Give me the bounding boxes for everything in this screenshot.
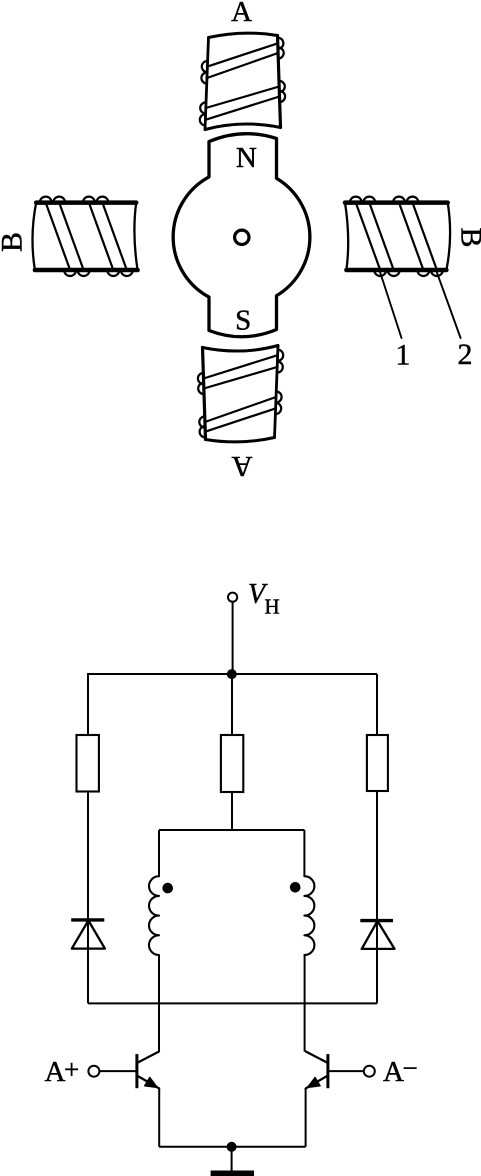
phase B-bar right coil — [345, 197, 450, 276]
top rail wire — [87, 673, 377, 675]
diode D1 cathode bar — [71, 918, 104, 921]
leader line to wire 1 — [380, 273, 401, 339]
coil A turn 1 left loop — [276, 403, 282, 414]
junction dot top rail — [227, 669, 237, 679]
coil A turn 1 wire — [205, 408, 275, 431]
svg-text:A: A — [231, 450, 252, 482]
coil A turn 1 left loop — [202, 61, 208, 72]
diode D1 triangle — [72, 921, 105, 949]
coil B turn 3 wire — [89, 203, 113, 270]
coil A left edge — [205, 38, 209, 130]
coil A turn 1 wire — [207, 43, 277, 66]
coil B turn 4 wire — [102, 203, 126, 270]
wire right branch upper — [376, 674, 378, 735]
ground bar — [211, 1171, 254, 1176]
transistor Q2 base bar — [326, 1054, 329, 1088]
wire R2 to transformer center tap — [231, 792, 233, 830]
wire left branch upper — [87, 674, 89, 735]
svg-text:N: N — [236, 142, 257, 174]
svg-text:S: S — [235, 305, 251, 337]
svg-text:A: A — [231, 0, 252, 28]
phase dot L2 — [290, 882, 301, 893]
coil A turn 2 wire — [205, 397, 276, 422]
coil B turn 4 top loop — [96, 197, 108, 203]
wire to ground — [231, 1147, 233, 1171]
terminal A- circle — [364, 1066, 375, 1077]
coil B turn 3 top loop — [83, 197, 95, 203]
coil B turn 2 wire — [59, 203, 83, 270]
bottom rail wire — [88, 1002, 377, 1004]
coil A turn 2 left loop — [276, 391, 282, 402]
inductor L2 right winding — [304, 876, 314, 955]
coil B left end arc — [32, 203, 36, 270]
coil A turn 4 wire — [205, 97, 279, 120]
coil B turn 3 bottom loop — [107, 270, 119, 276]
coil B top edge — [346, 268, 446, 273]
phase dot L1 — [162, 883, 173, 894]
svg-text:2: 2 — [458, 338, 473, 371]
svg-text:B: B — [455, 227, 481, 247]
coil B turn 3 bottom loop — [363, 197, 375, 203]
wire Q2 base to A- — [328, 1070, 364, 1072]
resistor R3 — [367, 735, 388, 791]
coil A left edge — [275, 346, 279, 438]
wire R3 through diode D2 to bottom rail — [376, 791, 378, 1003]
coil A turn 2 right loop — [278, 47, 284, 58]
coil A turn 3 left loop — [277, 361, 283, 372]
phase A-bar bottom coil — [198, 346, 283, 442]
coil A turn 3 right loop — [198, 383, 204, 394]
resistor R2 — [221, 735, 243, 792]
wire Q2 emitter down — [305, 1089, 307, 1147]
coil A right edge — [278, 36, 281, 128]
coil B turn 2 top loop — [417, 270, 429, 276]
coil B turn 2 bottom loop — [78, 270, 90, 276]
coil A turn 4 right loop — [198, 373, 204, 384]
coil A top end arc — [206, 438, 275, 442]
coil B turn 3 wire — [369, 203, 393, 270]
coil A turn 1 right loop — [200, 426, 206, 437]
coil A turn 4 wire — [204, 355, 278, 378]
svg-text:−: − — [403, 1053, 418, 1083]
coil B turn 2 wire — [399, 203, 423, 270]
coil A turn 4 left loop — [278, 350, 284, 361]
wire R1 through diode D1 to bottom rail — [87, 792, 89, 1004]
wire Q1 emitter down — [158, 1089, 160, 1147]
diode D2 triangle — [362, 921, 395, 949]
coil A turn 4 right loop — [280, 91, 286, 102]
coil A turn 3 left loop — [200, 102, 206, 113]
coil A bottom end arc — [205, 124, 281, 130]
motor shaft — [235, 230, 249, 244]
coil B top edge — [36, 200, 136, 205]
transistor Q2 emitter — [306, 1076, 328, 1089]
coil B turn 1 wire — [413, 203, 437, 270]
coil A turn 3 wire — [206, 87, 279, 109]
motor rotor body with N and S pole necks — [173, 134, 310, 337]
wire rail to R2 — [231, 674, 233, 735]
svg-text:B: B — [0, 232, 29, 252]
coil A turn 1 right loop — [278, 38, 284, 49]
coil A turn 2 wire — [207, 53, 278, 78]
coil B bottom edge — [345, 200, 448, 205]
svg-text:H: H — [265, 595, 280, 619]
svg-text:+: + — [64, 1055, 79, 1085]
coil A right edge — [203, 348, 206, 440]
svg-text:A: A — [383, 1056, 404, 1088]
emitter common rail — [159, 1146, 305, 1148]
coil B turn 4 wire — [356, 203, 380, 270]
Q2 emitter arrow — [308, 1078, 320, 1088]
coil A bottom end arc — [203, 346, 279, 352]
coil B bottom edge — [35, 268, 138, 273]
diode D2 cathode bar — [360, 919, 393, 922]
coil A turn 3 right loop — [279, 81, 285, 92]
coil B turn 1 top loop — [431, 270, 443, 276]
transistor Q1 collector — [137, 1052, 159, 1064]
coil A top end arc — [209, 33, 278, 37]
coil B turn 4 bottom loop — [121, 270, 133, 276]
wire L2 to Q2 collector — [304, 955, 306, 1052]
resistor R1 — [77, 735, 99, 792]
coil B turn 2 bottom loop — [393, 197, 405, 203]
wire to right winding — [303, 830, 305, 876]
terminal VH — [228, 593, 237, 602]
coil B turn 2 top loop — [53, 197, 65, 203]
phase A top coil — [200, 33, 285, 129]
coil B turn 4 top loop — [374, 270, 386, 276]
phase B left coil — [32, 197, 137, 276]
wire L1 to Q1 collector — [158, 955, 160, 1052]
terminal A+ circle — [88, 1066, 99, 1077]
coil B turn 3 top loop — [388, 270, 400, 276]
coil B turn 1 top loop — [40, 197, 52, 203]
inductor L1 left winding — [149, 876, 159, 955]
coil B turn 1 wire — [46, 203, 70, 270]
coil B turn 1 bottom loop — [407, 197, 419, 203]
coil B right end arc — [134, 203, 137, 270]
transistor Q2 collector — [306, 1052, 328, 1064]
coil A turn 2 right loop — [199, 416, 205, 427]
leader line to wire 2 — [437, 273, 461, 339]
transistor Q1 base bar — [135, 1054, 138, 1088]
coil A turn 3 wire — [204, 367, 277, 389]
coil B right end arc — [345, 203, 348, 270]
coil B left end arc — [446, 203, 450, 270]
wire to left winding — [158, 830, 160, 876]
coil B turn 1 bottom loop — [64, 270, 76, 276]
junction dot emitter rail — [227, 1142, 237, 1152]
coil A turn 2 left loop — [201, 72, 207, 83]
transistor Q1 emitter — [137, 1076, 159, 1089]
coil B turn 4 bottom loop — [350, 197, 362, 203]
wire A+ to Q1 base — [99, 1070, 136, 1072]
svg-text:A: A — [45, 1056, 66, 1088]
transformer top wire — [159, 829, 304, 831]
wire VH to top rail — [232, 602, 234, 674]
coil A turn 4 left loop — [200, 114, 206, 125]
svg-text:1: 1 — [395, 339, 410, 372]
Q1 emitter arrow — [145, 1078, 157, 1088]
